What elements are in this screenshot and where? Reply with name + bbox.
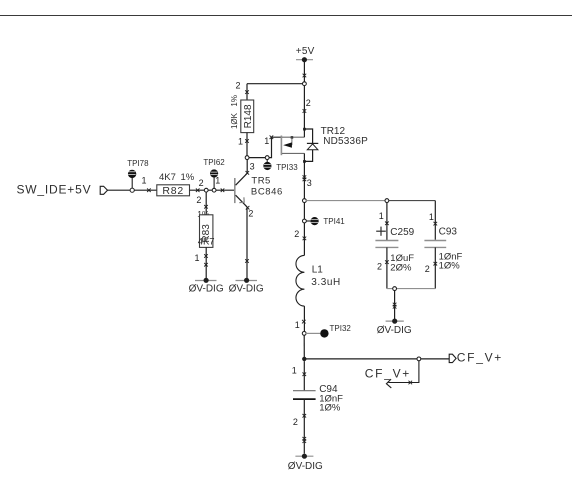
power +5V xyxy=(296,46,315,63)
svg-text:3.3uH: 3.3uH xyxy=(311,277,340,288)
svg-text:1%: 1% xyxy=(230,95,239,107)
svg-text:CF_V+: CF_V+ xyxy=(457,350,503,364)
wire +5V rail down to R148 tap xyxy=(303,60,307,82)
wire ground stem of capacitors xyxy=(393,290,397,319)
wire R148 top branch xyxy=(236,80,303,100)
ground 0V-DIG (R83) xyxy=(189,278,224,295)
resistor R148 xyxy=(230,95,254,156)
node junction at TPI41 xyxy=(303,219,307,223)
svg-text:2: 2 xyxy=(248,208,253,218)
svg-text:1%: 1% xyxy=(181,172,195,183)
svg-text:TPI32: TPI32 xyxy=(330,324,352,333)
svg-text:TPI41: TPI41 xyxy=(323,217,345,226)
svg-text:L1: L1 xyxy=(312,264,324,275)
svg-text:2: 2 xyxy=(425,264,430,274)
wire to CF_V+ port xyxy=(304,358,417,360)
ground 0V-DIG (C94) xyxy=(288,454,323,472)
test point TPI62 xyxy=(203,158,225,189)
node junction at C259 top xyxy=(385,199,389,203)
svg-text:2: 2 xyxy=(196,195,201,205)
capacitor C259 xyxy=(375,202,414,288)
svg-text:1: 1 xyxy=(238,137,243,147)
node junction at TPI33 xyxy=(265,156,269,160)
svg-text:1: 1 xyxy=(142,175,147,185)
svg-text:BC846: BC846 xyxy=(251,187,283,198)
wire TR5 emitter to ground xyxy=(245,208,249,279)
port CF_V+ (output) xyxy=(449,350,503,364)
svg-text:C259: C259 xyxy=(390,227,414,238)
svg-text:1ØK: 1ØK xyxy=(230,112,239,129)
svg-text:1: 1 xyxy=(429,212,434,222)
wire junction to TPI33 node xyxy=(249,157,266,159)
svg-text:2: 2 xyxy=(199,178,204,188)
wire rail to TPI41 xyxy=(303,202,305,219)
node junction at R83 branch xyxy=(204,188,208,192)
wire to port arrow xyxy=(421,358,450,360)
port SW_IDE+5V (input) xyxy=(17,183,108,197)
wire gate of TR12, pin 1 xyxy=(264,135,281,157)
node junction CF_V+ / C94 xyxy=(302,357,306,361)
node junction at +5V rail / R148 branch xyxy=(303,82,307,86)
svg-text:1: 1 xyxy=(292,366,297,376)
wire R82 to TR5 base, pin 2 xyxy=(190,178,235,192)
node junction at CF_V+ flag branch xyxy=(417,357,421,361)
svg-text:ØV-DIG: ØV-DIG xyxy=(288,461,323,472)
wire TR12 drain down, pin 3 xyxy=(303,161,312,199)
svg-text:1Ø%: 1Ø% xyxy=(319,403,341,414)
net flag CF_V+ xyxy=(365,361,419,388)
svg-text:SW_IDE+5V: SW_IDE+5V xyxy=(17,183,92,197)
svg-text:2: 2 xyxy=(377,261,382,271)
test point TPI33 xyxy=(263,159,298,172)
node junction at TPI32 xyxy=(302,332,306,336)
transistor TR12 (P-MOSFET) xyxy=(281,126,368,163)
test point TPI41 xyxy=(306,217,345,226)
svg-text:ØV-DIG: ØV-DIG xyxy=(377,325,412,336)
svg-text:3: 3 xyxy=(307,178,312,188)
wire to output node xyxy=(303,335,305,360)
inductor L1 xyxy=(296,255,341,306)
svg-text:+5V: +5V xyxy=(296,46,315,57)
svg-text:R148: R148 xyxy=(243,104,254,128)
svg-text:C93: C93 xyxy=(439,227,458,238)
svg-text:ND5336P: ND5336P xyxy=(323,136,368,147)
svg-text:4K7: 4K7 xyxy=(159,172,176,183)
ground 0V-DIG (capacitors) xyxy=(377,319,412,337)
svg-text:TR5: TR5 xyxy=(251,176,270,187)
node junction below R148 xyxy=(245,156,249,160)
ground 0V-DIG (TR5) xyxy=(229,278,264,295)
svg-text:2: 2 xyxy=(306,98,311,108)
svg-text:4K7: 4K7 xyxy=(198,236,215,247)
wire TPI78 node to R82, pin 1 xyxy=(134,175,157,192)
wire rail to TR12 source, pin 2 xyxy=(303,85,311,129)
svg-text:1: 1 xyxy=(379,211,384,221)
node junction at TPI78 xyxy=(130,188,134,192)
test point TPI32 xyxy=(306,324,351,338)
svg-text:3: 3 xyxy=(250,162,255,172)
capacitor C93 xyxy=(424,201,462,289)
svg-text:TPI33: TPI33 xyxy=(276,163,298,172)
wire bottom rail between C259 and C93 xyxy=(387,288,435,290)
svg-text:ØV-DIG: ØV-DIG xyxy=(189,284,224,295)
svg-text:2: 2 xyxy=(294,229,299,239)
svg-text:2Ø%: 2Ø% xyxy=(390,262,412,273)
wire input to TPI78 node xyxy=(107,189,130,191)
svg-text:1: 1 xyxy=(264,136,269,146)
capacitor C94 xyxy=(292,361,343,454)
svg-text:2: 2 xyxy=(236,80,241,90)
node junction to capacitor branch xyxy=(303,199,307,203)
svg-text:CF_V+: CF_V+ xyxy=(365,367,411,381)
resistor R83 xyxy=(195,192,215,278)
resistor R82 xyxy=(157,172,195,197)
svg-text:1: 1 xyxy=(295,320,300,330)
transistor TR5 xyxy=(235,159,283,218)
svg-text:TPI78: TPI78 xyxy=(127,159,149,168)
svg-text:2: 2 xyxy=(293,417,298,427)
svg-text:TPI62: TPI62 xyxy=(203,158,225,167)
test point TPI78 xyxy=(127,159,149,188)
svg-text:ØV-DIG: ØV-DIG xyxy=(229,284,264,295)
svg-text:1: 1 xyxy=(195,253,200,263)
node junction at ground stem xyxy=(393,287,397,291)
wire L1 to TPI32 node, pin 1 xyxy=(295,306,306,332)
wire to C259 / C93 top xyxy=(306,200,435,202)
svg-text:R82: R82 xyxy=(162,185,184,197)
svg-text:1: 1 xyxy=(215,176,220,186)
svg-text:1Ø%: 1Ø% xyxy=(439,261,461,272)
node junction at TPI62 xyxy=(212,188,216,192)
wire to L1, pin 2 xyxy=(294,223,306,256)
